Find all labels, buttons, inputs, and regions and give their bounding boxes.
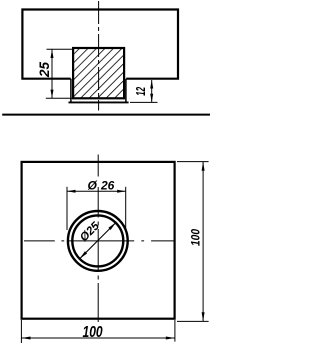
svg-text:100: 100 — [190, 228, 203, 246]
dim 25 extension line bottom — [46, 97, 72, 99]
dim 100 right label — [190, 228, 203, 246]
dim 100 bottom extension line left — [20, 320, 22, 343]
dim 25 dimension line with arrows — [51, 49, 54, 98]
dim 25 extension line top — [47, 48, 73, 50]
centerline horizontal (bottom view) — [24, 240, 175, 242]
dim 100 bottom label — [83, 323, 103, 341]
dim 25 label — [37, 61, 52, 78]
svg-text:25: 25 — [37, 61, 52, 78]
inner circle d25 — [72, 215, 123, 266]
dim 12 extension line bottom — [130, 101, 158, 103]
outer circle d26 — [68, 211, 128, 271]
dim phi26 label — [88, 178, 115, 192]
dim 12 label — [134, 87, 148, 96]
svg-text:100: 100 — [83, 323, 103, 341]
svg-text:12: 12 — [134, 87, 148, 96]
dim phi25 label — [78, 220, 102, 244]
dim 100 right extension line top — [177, 161, 209, 163]
block outline (top view) — [22, 10, 178, 79]
socket sleeve right wall — [125, 79, 127, 102]
dim 100 right dimension line with arrows — [202, 162, 205, 322]
dim phi26 extension line right — [125, 187, 127, 230]
dim 100 right extension line bottom — [177, 320, 209, 322]
plate outline (bottom view) — [22, 162, 175, 319]
centerline vertical (bottom view) — [97, 155, 99, 323]
dim phi26 dimension line with arrows — [67, 190, 126, 193]
svg-text:Ø: Ø — [88, 178, 98, 192]
svg-text:26: 26 — [100, 178, 115, 192]
dim 100 bottom extension line right — [174, 320, 176, 342]
separator line between views — [2, 114, 210, 116]
dim 100 bottom dimension line with arrows — [21, 337, 175, 340]
dim 12 dimension line with arrows — [150, 80, 153, 102]
centerline vertical (top view) — [98, 1, 100, 111]
dim phi25 diagonal dimension line with arrows — [80, 223, 116, 259]
plug (hatched section) — [73, 48, 124, 98]
dim phi26 extension line left — [66, 187, 68, 230]
socket sleeve bottom lip — [69, 101, 129, 103]
socket sleeve left wall — [70, 79, 72, 102]
